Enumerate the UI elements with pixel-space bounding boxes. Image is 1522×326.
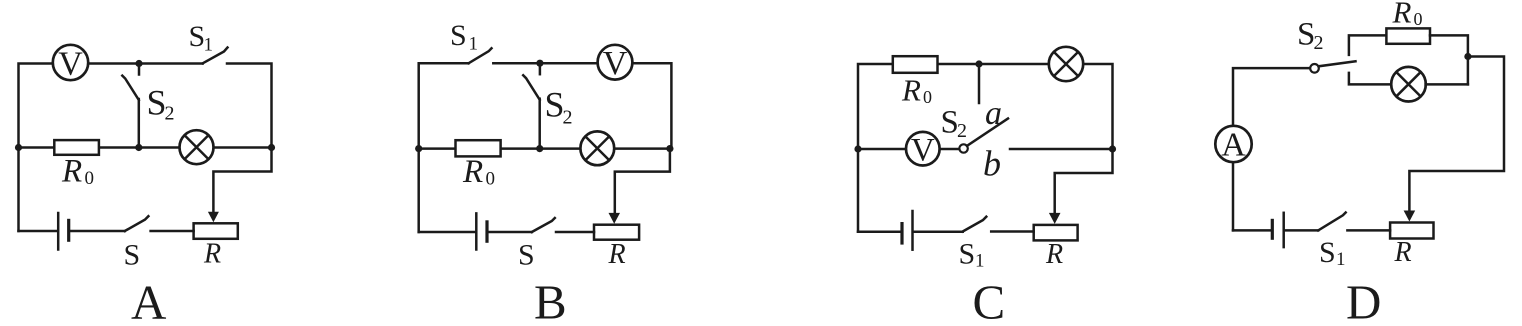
svg-text:V: V (58, 46, 83, 83)
svg-text:2: 2 (165, 103, 175, 125)
switch S2 pivot (959, 144, 967, 152)
switch S1 (963, 217, 987, 232)
wire (488, 231, 532, 234)
node (536, 60, 543, 67)
node (135, 60, 142, 67)
node (268, 144, 275, 151)
rheostat wiper arrow (208, 212, 219, 223)
switch S (532, 218, 555, 232)
wire (991, 230, 1033, 233)
rheostat R (194, 223, 238, 239)
wire (227, 64, 272, 148)
battery (476, 213, 487, 249)
label S2 (545, 84, 573, 128)
label S1 (959, 238, 985, 272)
wire (1349, 35, 1387, 55)
label R (1394, 237, 1412, 268)
wire (858, 64, 893, 232)
svg-text:S: S (124, 239, 141, 272)
wire (615, 149, 670, 214)
svg-text:V: V (603, 45, 628, 82)
wire (151, 230, 194, 233)
rheostat wiper arrow (609, 213, 621, 224)
label A (131, 275, 167, 326)
wire (1233, 229, 1271, 232)
svg-text:0: 0 (85, 168, 95, 189)
svg-text:S: S (959, 238, 976, 271)
wire (858, 231, 901, 234)
voltmeter V (598, 45, 633, 82)
wire contact a (978, 64, 981, 103)
wire (138, 99, 141, 148)
wire (1409, 57, 1504, 212)
battery (902, 211, 913, 250)
svg-text:b: b (983, 144, 1001, 184)
svg-text:A: A (1221, 127, 1246, 164)
wire (1347, 229, 1390, 232)
label B (534, 275, 567, 326)
switch S2 (122, 64, 139, 100)
wire (493, 63, 671, 148)
svg-text:0: 0 (486, 169, 496, 190)
label S1 (450, 19, 478, 55)
wire (1055, 149, 1113, 214)
lamp (1049, 47, 1083, 81)
node (1464, 53, 1471, 60)
battery (1272, 213, 1283, 247)
switch S2 blade (967, 119, 1008, 146)
node (135, 144, 142, 151)
voltmeter V (53, 45, 88, 83)
node (536, 145, 543, 152)
lamp (180, 130, 214, 164)
rheostat R (1390, 223, 1433, 239)
switch S1 (469, 48, 492, 63)
svg-text:R: R (61, 153, 82, 189)
node (15, 144, 22, 151)
svg-text:A: A (131, 275, 167, 326)
svg-text:a: a (985, 95, 1002, 132)
node (1109, 145, 1116, 152)
wire (19, 230, 58, 233)
switch S2 pivot (1310, 64, 1319, 73)
label S2 (1297, 17, 1324, 54)
label b (983, 144, 1001, 184)
resistor R0 (54, 140, 99, 155)
svg-text:1: 1 (1336, 249, 1346, 270)
svg-text:1: 1 (204, 35, 214, 56)
rheostat wiper arrow (1404, 211, 1416, 222)
wire (538, 99, 541, 149)
svg-text:1: 1 (975, 251, 985, 272)
switch S2 (523, 64, 540, 100)
wire (938, 64, 1113, 149)
label R0 (462, 154, 495, 190)
svg-text:R: R (203, 239, 221, 270)
wire (419, 231, 475, 234)
lamp (1391, 67, 1426, 102)
label R (1045, 239, 1063, 270)
label S1 (1319, 236, 1346, 270)
svg-text:R: R (462, 154, 483, 190)
wire (1349, 73, 1392, 85)
label S (124, 239, 141, 272)
wire (556, 231, 594, 234)
rheostat R (1034, 225, 1078, 241)
node (854, 145, 861, 152)
svg-text:V: V (911, 133, 935, 169)
wire (419, 63, 469, 232)
label R0 (61, 153, 94, 189)
svg-text:2: 2 (1314, 32, 1324, 54)
node (975, 60, 982, 67)
wire (19, 64, 203, 232)
switch S2 blade (1319, 61, 1356, 66)
svg-text:1: 1 (469, 34, 479, 55)
svg-text:C: C (973, 275, 1006, 326)
svg-text:B: B (534, 275, 567, 326)
switch S (125, 216, 149, 231)
wire (1285, 229, 1318, 232)
wire (19, 146, 272, 149)
svg-text:2: 2 (957, 120, 967, 142)
svg-text:S: S (450, 19, 467, 52)
wire (1426, 83, 1468, 86)
node (415, 145, 422, 152)
label D (1346, 275, 1381, 326)
svg-text:R: R (1045, 239, 1063, 270)
label R (203, 239, 221, 270)
svg-text:0: 0 (923, 87, 932, 107)
label R0 (901, 72, 932, 107)
rheostat wiper arrow (1049, 213, 1061, 224)
wire (1233, 68, 1310, 230)
svg-text:S: S (518, 239, 535, 272)
svg-text:R: R (1392, 0, 1412, 29)
svg-text:D: D (1346, 275, 1381, 326)
svg-text:R: R (1394, 237, 1412, 268)
label R0 (1392, 0, 1423, 29)
lamp (580, 131, 614, 165)
label a (985, 95, 1002, 132)
wire (858, 148, 959, 151)
switch S1 (203, 48, 228, 64)
label C (973, 275, 1006, 326)
battery (58, 213, 68, 250)
node (666, 145, 673, 152)
resistor R0 (456, 140, 501, 156)
wire (419, 147, 670, 150)
wire (914, 231, 963, 234)
wire (213, 148, 271, 214)
wire contact b (1010, 148, 1113, 151)
svg-text:2: 2 (563, 107, 573, 129)
wire (70, 230, 125, 233)
switch S1 (1318, 213, 1346, 231)
resistor R0 (893, 56, 938, 73)
svg-text:S: S (1319, 236, 1336, 269)
svg-text:R: R (901, 72, 921, 107)
svg-text:R: R (608, 239, 626, 270)
label S (518, 239, 535, 272)
label R (608, 239, 626, 270)
label S2 (941, 105, 968, 142)
wire (1430, 35, 1468, 84)
svg-text:0: 0 (1414, 9, 1423, 29)
resistor R0 (1386, 28, 1430, 43)
ammeter A (1215, 126, 1251, 164)
label S2 (147, 83, 175, 125)
label S1 (189, 20, 214, 56)
rheostat R (594, 225, 639, 240)
voltmeter V (906, 132, 940, 169)
